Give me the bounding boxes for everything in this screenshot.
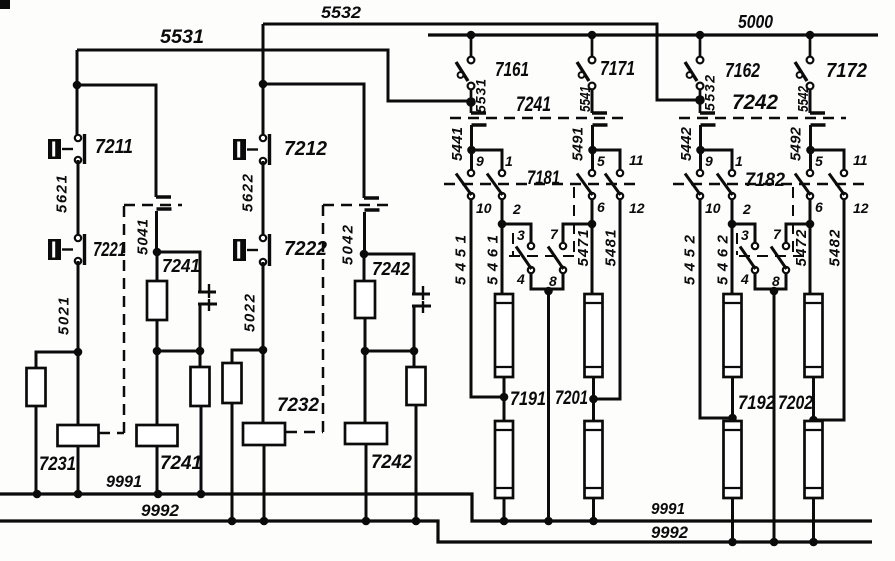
pin 2 label bbox=[742, 201, 751, 217]
wire pin9 down bbox=[699, 150, 702, 170]
dashed linkage 5042 bbox=[286, 205, 390, 432]
svg-text:7212: 7212 bbox=[284, 138, 327, 160]
svg-text:11: 11 bbox=[629, 152, 644, 168]
wire to coil 7242 bbox=[364, 351, 367, 423]
pin 8 label bbox=[549, 273, 557, 289]
label wire 5531 bbox=[160, 27, 204, 48]
wire cell2 main drop bbox=[262, 24, 265, 136]
pin 8 label bbox=[772, 273, 780, 289]
wire cell1 branch bbox=[77, 85, 156, 197]
node cap bottom cell2 bbox=[410, 347, 419, 356]
node cell1 low bbox=[74, 348, 83, 357]
svg-text:5531: 5531 bbox=[473, 79, 489, 113]
resistor cell2 right bbox=[407, 367, 426, 405]
svg-text:9: 9 bbox=[476, 153, 484, 169]
wire 5451 bbox=[471, 199, 504, 397]
pin 9 label bbox=[476, 153, 484, 169]
pin 1 label bbox=[735, 153, 743, 169]
label 5531 bbox=[473, 79, 489, 113]
pin 4 label bbox=[516, 271, 525, 287]
node cell2 top bbox=[259, 80, 268, 89]
svg-text:10: 10 bbox=[476, 200, 492, 216]
contact 7242 b bbox=[810, 113, 826, 150]
resistor cell1 left bbox=[27, 368, 46, 406]
svg-text:5472: 5472 bbox=[793, 229, 810, 267]
wire 7171 down bbox=[591, 89, 594, 113]
svg-text:7202: 7202 bbox=[778, 393, 813, 414]
dashed linkage 7242 bbox=[679, 117, 846, 120]
node cell1 top bbox=[73, 81, 82, 90]
svg-text:5482: 5482 bbox=[827, 229, 844, 267]
node bus 5000 7172 bbox=[806, 31, 815, 40]
contact pins 1-2 bbox=[487, 170, 505, 199]
wire 5621 bbox=[77, 160, 80, 237]
pin 9 label bbox=[705, 153, 713, 169]
pin 12 label bbox=[629, 200, 645, 216]
heater 7191 lower bbox=[495, 421, 513, 498]
svg-text:7211: 7211 bbox=[95, 136, 133, 158]
wire pin7 jumper bbox=[563, 224, 592, 243]
wire to cell2 left resistor bbox=[232, 350, 263, 363]
heater 7191 upper bbox=[495, 294, 513, 377]
contact pins 3-4 bbox=[740, 243, 758, 273]
wire cap down cell2 bbox=[413, 306, 416, 351]
relay coil 7232 bbox=[243, 423, 285, 445]
svg-text:7172: 7172 bbox=[826, 60, 867, 82]
label 7232 bbox=[277, 395, 319, 416]
svg-text:7191: 7191 bbox=[510, 389, 546, 410]
node pin7 branch bbox=[588, 220, 597, 229]
svg-text:1: 1 bbox=[505, 153, 513, 169]
svg-text:5542: 5542 bbox=[795, 85, 812, 112]
contact pins 11-12 bbox=[829, 170, 847, 199]
svg-text:5532: 5532 bbox=[321, 3, 362, 22]
svg-text:7181: 7181 bbox=[527, 168, 560, 189]
svg-text:9992: 9992 bbox=[651, 523, 689, 542]
svg-text:11: 11 bbox=[853, 152, 868, 168]
svg-text:7241: 7241 bbox=[160, 453, 202, 474]
wire coil 7242 to bus bbox=[365, 444, 368, 521]
contact pins 11-12 bbox=[605, 170, 623, 199]
svg-text:6: 6 bbox=[815, 199, 823, 215]
wire pin7 jumper bbox=[786, 224, 810, 243]
heater 7192 upper bbox=[724, 294, 742, 377]
wire cap branch cell2 bbox=[364, 254, 414, 294]
svg-text:7222: 7222 bbox=[284, 238, 327, 260]
pin 10 label bbox=[476, 200, 492, 216]
wire 7172 down bbox=[809, 89, 812, 113]
resistor cell1 right bbox=[191, 367, 210, 406]
wire 5531 bbox=[77, 50, 469, 101]
wire 5461 bbox=[501, 199, 504, 294]
node bus 5000 7171 bbox=[588, 31, 597, 40]
contact pins 1-2 bbox=[717, 170, 735, 199]
pin 11 label bbox=[629, 152, 644, 168]
svg-text:9991: 9991 bbox=[106, 472, 142, 491]
label 5442 bbox=[678, 126, 695, 161]
node 5491 bbox=[588, 146, 597, 155]
resistor 7241 bbox=[147, 281, 167, 320]
label 5451 bbox=[453, 235, 470, 285]
svg-text:5000: 5000 bbox=[738, 12, 773, 32]
contact pins 9-10 bbox=[685, 170, 703, 199]
contact pins 7-8 bbox=[771, 243, 789, 273]
pin 3 label bbox=[741, 227, 749, 243]
node cap bottom bbox=[196, 347, 205, 356]
node cell2 low bbox=[259, 346, 268, 355]
svg-text:7242: 7242 bbox=[372, 259, 410, 279]
svg-text:5042: 5042 bbox=[340, 224, 357, 265]
svg-text:5622: 5622 bbox=[240, 173, 257, 212]
node 5441 bbox=[467, 146, 476, 155]
wire 5482 bbox=[814, 199, 845, 420]
node 5442 bbox=[696, 146, 705, 155]
svg-text:7242: 7242 bbox=[371, 452, 412, 473]
wire to coil 7231 bbox=[77, 352, 80, 425]
wire cap branch bbox=[157, 252, 200, 292]
svg-text:7161: 7161 bbox=[495, 59, 529, 81]
svg-text:5442: 5442 bbox=[678, 126, 695, 161]
wire coil 7241 to bus bbox=[156, 446, 159, 494]
label 7161 bbox=[495, 59, 529, 81]
pin 2 label bbox=[512, 201, 521, 217]
switch 7171 bbox=[577, 35, 595, 89]
wire branch pin11 bbox=[811, 150, 845, 170]
wire mid link cell2 bbox=[365, 350, 414, 353]
node bus 9991 x36 bbox=[33, 490, 42, 499]
wire resistor 7242 down bbox=[364, 318, 367, 351]
svg-text:1: 1 bbox=[735, 153, 743, 169]
node 5492 bbox=[806, 146, 815, 155]
svg-text:3: 3 bbox=[741, 227, 749, 243]
label 5021 bbox=[56, 297, 73, 335]
label bus 9991 right bbox=[651, 501, 685, 518]
heater 7192 lower bbox=[724, 421, 742, 498]
label 5542 bbox=[795, 85, 812, 112]
svg-text:5541: 5541 bbox=[577, 86, 594, 112]
pin 11 label bbox=[853, 152, 868, 168]
label coil 7242 bbox=[371, 452, 412, 473]
wire right resistor to bus bbox=[200, 406, 203, 494]
wire to coil 7232 bbox=[262, 350, 265, 423]
resistor cell2 left bbox=[223, 363, 242, 403]
switch 7172 bbox=[795, 35, 813, 89]
node bus 5000 7161 bbox=[467, 31, 476, 40]
wire heater1 to bus bbox=[731, 498, 734, 542]
wire coil 7232 to bus bbox=[263, 445, 266, 521]
label coil 7241 bbox=[160, 453, 202, 474]
svg-text:8: 8 bbox=[772, 273, 780, 289]
node bus 9992 x232 bbox=[228, 517, 237, 526]
svg-text:7192: 7192 bbox=[738, 393, 775, 414]
node bus 9991 x201 bbox=[197, 490, 206, 499]
label 5492 bbox=[788, 126, 805, 161]
node 4-8 bbox=[770, 287, 779, 296]
contact 7241 b bbox=[592, 113, 608, 150]
node bus heater2 bbox=[809, 538, 818, 547]
svg-text:7201: 7201 bbox=[555, 388, 588, 409]
svg-text:9991: 9991 bbox=[651, 501, 685, 518]
contact pins 7-8 bbox=[548, 243, 566, 273]
svg-text:8: 8 bbox=[549, 273, 557, 289]
node cell1 mid2 bbox=[153, 347, 162, 356]
node bus 9992 x264 bbox=[260, 517, 269, 526]
node cell2 mid2 bbox=[361, 347, 370, 356]
label 7181 bbox=[527, 168, 560, 189]
node bus 9991 x158 bbox=[154, 490, 163, 499]
wire pins 4-8 common bbox=[531, 273, 563, 289]
label 7222 bbox=[284, 238, 327, 260]
wire 5022 bbox=[262, 262, 265, 350]
label 5481 bbox=[603, 230, 620, 267]
resistor 7242 bbox=[355, 281, 375, 318]
pin 5 label bbox=[597, 153, 605, 169]
wire cell2 left resistor to bus bbox=[231, 403, 234, 521]
node 7192 bbox=[728, 414, 737, 423]
label 7171 bbox=[600, 58, 635, 80]
node bus 774 bbox=[770, 538, 779, 547]
label 5482 bbox=[827, 229, 844, 267]
svg-text:9: 9 bbox=[705, 153, 713, 169]
wire branch pin1 bbox=[701, 150, 733, 170]
contact pins 3-4 bbox=[516, 243, 534, 273]
label 5541 bbox=[577, 86, 594, 112]
label resistor 7242 bbox=[372, 259, 410, 279]
node pin7 branch bbox=[806, 220, 815, 229]
dashed linkage 5041 bbox=[99, 205, 182, 433]
svg-text:5492: 5492 bbox=[788, 126, 805, 161]
label 7242 bbox=[732, 91, 778, 114]
label 5462 bbox=[715, 234, 732, 285]
svg-text:6: 6 bbox=[597, 199, 605, 215]
node 4-8 bbox=[544, 287, 553, 296]
relay coil 7242 bbox=[345, 423, 387, 444]
dashed box 3-7 contacts bbox=[737, 187, 803, 256]
wire to coil 7241 bbox=[156, 351, 159, 425]
wire 5452 bbox=[700, 199, 733, 418]
wire heater2 to bus bbox=[812, 498, 815, 542]
svg-text:2: 2 bbox=[742, 201, 751, 217]
wire heater2 bbox=[592, 377, 595, 421]
label 5622 bbox=[240, 173, 257, 212]
svg-text:7242: 7242 bbox=[732, 91, 778, 114]
label 5441 bbox=[449, 127, 466, 161]
svg-text:5441: 5441 bbox=[449, 127, 466, 161]
svg-text:7171: 7171 bbox=[600, 58, 635, 80]
contact pins 9-10 bbox=[456, 170, 474, 199]
capacitor cell1 bbox=[198, 284, 217, 311]
wire 4-8 to bus bbox=[773, 291, 776, 542]
pin 3 label bbox=[517, 227, 525, 243]
node 7202 bbox=[809, 416, 818, 425]
node bus 9992 x416 bbox=[412, 517, 421, 526]
svg-text:5: 5 bbox=[597, 153, 605, 169]
wire node to resistor 7242 bbox=[363, 254, 366, 281]
pin 6 label bbox=[815, 199, 823, 215]
switch 7161 bbox=[456, 35, 474, 89]
node 5532 bbox=[695, 89, 705, 113]
label 7201 bbox=[555, 388, 588, 409]
label 7231 bbox=[39, 454, 76, 475]
wire cell2 right resistor to bus bbox=[415, 405, 418, 521]
node bus 5000 7162 bbox=[696, 31, 705, 40]
svg-text:5532: 5532 bbox=[702, 75, 718, 111]
wire 5481 bbox=[594, 199, 621, 399]
label 7212 bbox=[284, 138, 327, 160]
label 5472 bbox=[793, 229, 810, 267]
pin 7 label bbox=[550, 226, 559, 242]
label 5041 bbox=[135, 219, 152, 255]
label 7182 bbox=[745, 170, 785, 191]
svg-text:2: 2 bbox=[512, 201, 521, 217]
label 5532 bbox=[702, 75, 718, 111]
pushbutton 7222 bbox=[233, 234, 270, 266]
label 7211 bbox=[95, 136, 133, 158]
contact 7242 a bbox=[700, 113, 716, 150]
label bus 5000 bbox=[738, 12, 773, 32]
wire 5471 bbox=[591, 199, 594, 294]
svg-text:7231: 7231 bbox=[39, 454, 76, 475]
svg-text:7241: 7241 bbox=[162, 256, 200, 276]
label bus 9991 left bbox=[106, 472, 142, 491]
svg-text:5471: 5471 bbox=[575, 230, 592, 267]
bus 9992 bbox=[0, 521, 872, 542]
node pin3 branch bbox=[728, 220, 737, 229]
node 5531 bbox=[466, 89, 476, 113]
svg-text:9992: 9992 bbox=[141, 501, 180, 520]
pin 5 label bbox=[815, 153, 823, 169]
relay coil 7231 bbox=[58, 425, 99, 446]
heater 7201 lower bbox=[585, 421, 603, 498]
wire to right resistor bbox=[199, 351, 202, 367]
wire 5021 bbox=[77, 261, 80, 352]
node bus 548.5 bbox=[544, 517, 553, 526]
dashed linkage 7181 bbox=[444, 183, 641, 186]
svg-text:3: 3 bbox=[517, 227, 525, 243]
dashed linkage 7241 bbox=[450, 117, 628, 120]
wire cap down bbox=[199, 304, 202, 351]
wire pin5 down bbox=[591, 150, 594, 170]
capacitor cell2 bbox=[412, 286, 431, 313]
node bus heater2 bbox=[589, 517, 598, 526]
wire 4-8 to bus bbox=[547, 291, 550, 521]
wire coil 7231 to bus bbox=[77, 446, 80, 494]
wire mid link bbox=[157, 350, 200, 353]
node cell2 mid bbox=[360, 250, 369, 259]
pin 1 label bbox=[505, 153, 513, 169]
label 7191 bbox=[510, 389, 546, 410]
wire 5532 bbox=[263, 24, 696, 100]
wire 5462 bbox=[731, 199, 734, 294]
label 7172 bbox=[826, 60, 867, 82]
pushbutton 7211 bbox=[48, 134, 85, 164]
svg-text:5041: 5041 bbox=[135, 219, 152, 255]
contact 7241 a bbox=[471, 113, 487, 150]
svg-text:7182: 7182 bbox=[745, 170, 785, 191]
pin 7 label bbox=[773, 226, 782, 242]
wire left resistor to bus bbox=[35, 406, 38, 494]
svg-text:7: 7 bbox=[550, 226, 559, 242]
label 5022 bbox=[242, 293, 259, 332]
label 7162 bbox=[725, 60, 760, 82]
node 7201 bbox=[589, 395, 598, 404]
label 5461 bbox=[485, 235, 502, 285]
wire contact to node cell2 bbox=[363, 212, 366, 254]
heater 7202 upper bbox=[805, 294, 823, 377]
pin 6 label bbox=[597, 199, 605, 215]
pin 12 label bbox=[853, 200, 869, 216]
pin 10 label bbox=[705, 200, 721, 216]
heater 7202 lower bbox=[805, 421, 823, 498]
wire branch pin11 bbox=[593, 150, 621, 170]
label 5621 bbox=[54, 175, 71, 213]
svg-text:10: 10 bbox=[705, 200, 721, 216]
wire node to resistor 7241 bbox=[156, 252, 159, 281]
wire pin9 down bbox=[470, 150, 473, 170]
wire resistor 7241 down bbox=[156, 320, 159, 351]
label 7192 bbox=[738, 393, 775, 414]
label bus 9992 right bbox=[651, 523, 689, 542]
wire 5622 bbox=[262, 161, 265, 238]
bus 9991 bbox=[0, 494, 872, 521]
svg-text:12: 12 bbox=[853, 200, 869, 216]
pushbutton 7212 bbox=[233, 134, 270, 165]
svg-text:7232: 7232 bbox=[277, 395, 319, 416]
wire 5472 bbox=[809, 199, 812, 294]
svg-text:4: 4 bbox=[516, 271, 525, 287]
svg-text:5481: 5481 bbox=[603, 230, 620, 267]
wire heater1 bbox=[731, 377, 734, 421]
wire heater1 bbox=[503, 377, 506, 421]
contact 5042 box cell2 bbox=[364, 198, 380, 210]
svg-text:7241: 7241 bbox=[516, 93, 551, 116]
label 7221 bbox=[93, 239, 126, 261]
svg-text:7162: 7162 bbox=[725, 60, 760, 82]
wire pin3 jumper bbox=[732, 224, 755, 243]
label 7241 bbox=[516, 93, 551, 116]
label bus 9992 left bbox=[141, 501, 180, 520]
contact pins 5-6 bbox=[795, 170, 813, 199]
label wire 5532 bbox=[321, 3, 362, 22]
heater 7201 upper bbox=[585, 294, 603, 377]
node pin3 branch bbox=[498, 220, 507, 229]
node bus heater1 bbox=[500, 517, 509, 526]
node bus 9992 x366 bbox=[362, 517, 371, 526]
label 5491 bbox=[570, 127, 587, 161]
svg-text:5022: 5022 bbox=[242, 293, 259, 332]
svg-text:5531: 5531 bbox=[160, 27, 204, 48]
node bus 9991 x78 bbox=[74, 490, 83, 499]
svg-text:5491: 5491 bbox=[570, 127, 587, 161]
pin 4 label bbox=[740, 271, 749, 287]
svg-text:5621: 5621 bbox=[54, 175, 71, 213]
wire contact to node bbox=[155, 211, 158, 252]
pushbutton 7221 bbox=[48, 234, 85, 265]
contact pins 5-6 bbox=[577, 170, 595, 199]
label resistor 7241 bbox=[162, 256, 200, 276]
dashed linkage 7182 bbox=[673, 183, 865, 186]
node cell1 mid bbox=[153, 248, 162, 257]
relay coil 7241 bbox=[137, 425, 178, 446]
wire pins 4-8 common bbox=[755, 273, 786, 289]
svg-text:5021: 5021 bbox=[56, 297, 73, 335]
wire to cell2 right resistor bbox=[413, 351, 416, 367]
wire heater2 bbox=[812, 377, 815, 421]
node 7191 bbox=[500, 393, 509, 402]
contact 5041 box cell1 bbox=[156, 197, 172, 209]
label 5471 bbox=[575, 230, 592, 267]
wire branch pin1 bbox=[472, 150, 503, 170]
